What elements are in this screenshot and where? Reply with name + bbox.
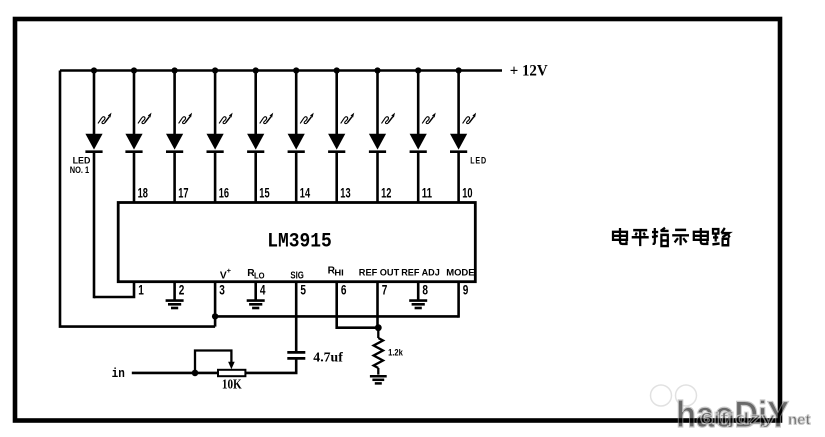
wire: LED8 cathode to pin 11	[376, 152, 379, 203]
pin 6 stub / wire RHI	[337, 282, 378, 328]
ground (pin 4)	[247, 301, 265, 308]
svg-text:in: in	[112, 366, 125, 381]
junction node: rail / LED2	[131, 67, 137, 73]
wire: +12V top rail	[60, 69, 502, 72]
svg-text:NO. 1: NO. 1	[70, 165, 89, 175]
svg-text:REF OUT: REF OUT	[359, 268, 400, 279]
LED D3	[166, 113, 192, 152]
wire: LED9 cathode to pin 10	[417, 152, 420, 203]
junction node: rail / LED1	[91, 67, 97, 73]
LED D9	[410, 113, 436, 152]
LED D2	[125, 113, 151, 152]
svg-text:+ 12V: + 12V	[510, 63, 549, 80]
svg-text:1.2k: 1.2k	[388, 347, 403, 357]
wire: rail to LED8 anode	[376, 71, 379, 136]
svg-text:LED: LED	[73, 156, 91, 166]
watermark logo haoDiY.net	[651, 385, 811, 435]
svg-text:10: 10	[462, 186, 472, 201]
svg-text:17: 17	[178, 186, 188, 201]
svg-text:18: 18	[138, 186, 149, 201]
IC U1 LM3915	[118, 203, 475, 282]
LED D1	[85, 113, 111, 152]
wire: node to R1	[377, 328, 379, 338]
wire: rail to LED2 anode	[133, 71, 136, 136]
wire: rail to LED7 anode	[335, 71, 338, 136]
pin 2 stub	[173, 282, 176, 301]
pin 9 stub / wire MODE to bus	[457, 282, 460, 318]
wire: wiper link	[195, 351, 231, 373]
junction node: rail / LED10	[456, 67, 462, 73]
ground (pin 8)	[409, 301, 427, 308]
pin 8 stub	[417, 282, 420, 301]
wire: rail to LED1 anode	[93, 71, 96, 136]
wire: R1 to ground	[377, 368, 379, 375]
svg-text:14: 14	[300, 186, 311, 201]
wiper arrowhead	[228, 362, 235, 369]
LED D7	[328, 113, 354, 152]
junction node: rail / LED4	[212, 67, 218, 73]
title text (Chinese): level indicator circuit	[613, 228, 730, 246]
svg-text:8: 8	[422, 282, 428, 297]
pin 5 stub / wire SIG to C1	[295, 282, 298, 352]
wire: LED1 cathode to pin 1	[94, 282, 134, 297]
svg-text:MODE: MODE	[446, 268, 475, 279]
LED D6	[288, 113, 314, 152]
wire: LED1 cathode down	[93, 152, 96, 299]
LED D8	[369, 113, 395, 152]
svg-text:LO: LO	[254, 271, 265, 280]
svg-text:10K: 10K	[222, 376, 242, 391]
junction node: REF OUT / RHI / R1	[375, 324, 382, 331]
capacitor C1 4.7uf	[287, 352, 305, 358]
junction node: rail / LED5	[253, 67, 259, 73]
wire: LED3 cathode to pin 16	[173, 152, 176, 203]
svg-text:1: 1	[138, 282, 144, 297]
wire: LED5 cathode to pin 14	[254, 152, 257, 203]
svg-text:16: 16	[219, 186, 230, 201]
svg-text:5: 5	[300, 282, 306, 297]
pin 4 stub	[254, 282, 257, 301]
svg-text:4.7uf: 4.7uf	[313, 349, 343, 364]
svg-text:4: 4	[260, 282, 266, 297]
junction node: rail / LED7	[334, 67, 340, 73]
wire: LED10 cathode to pin 9	[457, 152, 460, 203]
wire: rail to LED3 anode	[173, 71, 176, 136]
svg-text:13: 13	[340, 186, 351, 201]
wire: LED2 cathode to pin 17	[133, 152, 136, 203]
ground (R1)	[370, 376, 387, 383]
junction node: V+ / mode bus	[212, 313, 218, 319]
svg-text:3: 3	[219, 282, 225, 297]
junction node: rail / LED6	[293, 67, 299, 73]
svg-text:6ifjdzy: 6ifjdzy	[700, 409, 776, 428]
svg-text:7: 7	[382, 282, 388, 297]
svg-text:15: 15	[259, 186, 270, 201]
wire: rail to LED4 anode	[214, 71, 217, 136]
pin 7 stub / wire REF OUT	[376, 282, 379, 328]
junction node: rail / LED3	[172, 67, 178, 73]
svg-text:9: 9	[463, 282, 469, 297]
junction node: rail / LED9	[415, 67, 421, 73]
wire: rail to LED9 anode	[417, 71, 420, 136]
svg-text:net: net	[788, 412, 811, 429]
svg-text:REF ADJ: REF ADJ	[401, 268, 440, 279]
svg-text:LM3915: LM3915	[267, 231, 332, 254]
wire: left rail from +12V to V+ bus	[60, 71, 215, 327]
wire: rail to LED6 anode	[295, 71, 298, 136]
svg-text:12: 12	[381, 186, 391, 201]
potentiometer R2 10K	[218, 370, 245, 376]
wire: input to R2	[132, 372, 218, 375]
wire: V+ to MODE bus	[215, 315, 459, 318]
wire: LED6 cathode to pin 13	[295, 152, 298, 203]
svg-text:+: +	[227, 266, 232, 275]
svg-text:11: 11	[422, 186, 433, 201]
ground (pin 2)	[166, 301, 184, 308]
svg-text:2: 2	[179, 282, 185, 297]
LED D5	[247, 113, 273, 152]
LED D4	[207, 113, 233, 152]
junction node: rail / LED8	[374, 67, 380, 73]
wire: rail to LED5 anode	[254, 71, 257, 136]
wire: C1 bottom to R2 right terminal	[245, 358, 296, 373]
svg-text:SIG: SIG	[290, 270, 304, 281]
svg-text:6: 6	[341, 282, 347, 297]
wire: rail to LED10 anode	[457, 71, 460, 136]
wire: LED4 cathode to pin 15	[214, 152, 217, 203]
svg-text:LED: LED	[470, 155, 487, 165]
wire: LED7 cathode to pin 12	[335, 152, 338, 203]
resistor R1	[374, 338, 383, 368]
junction node: input / wiper	[192, 370, 199, 377]
LED D10	[450, 113, 476, 152]
pin 3 stub / wire V+	[214, 282, 217, 327]
svg-text:HI: HI	[334, 268, 343, 277]
